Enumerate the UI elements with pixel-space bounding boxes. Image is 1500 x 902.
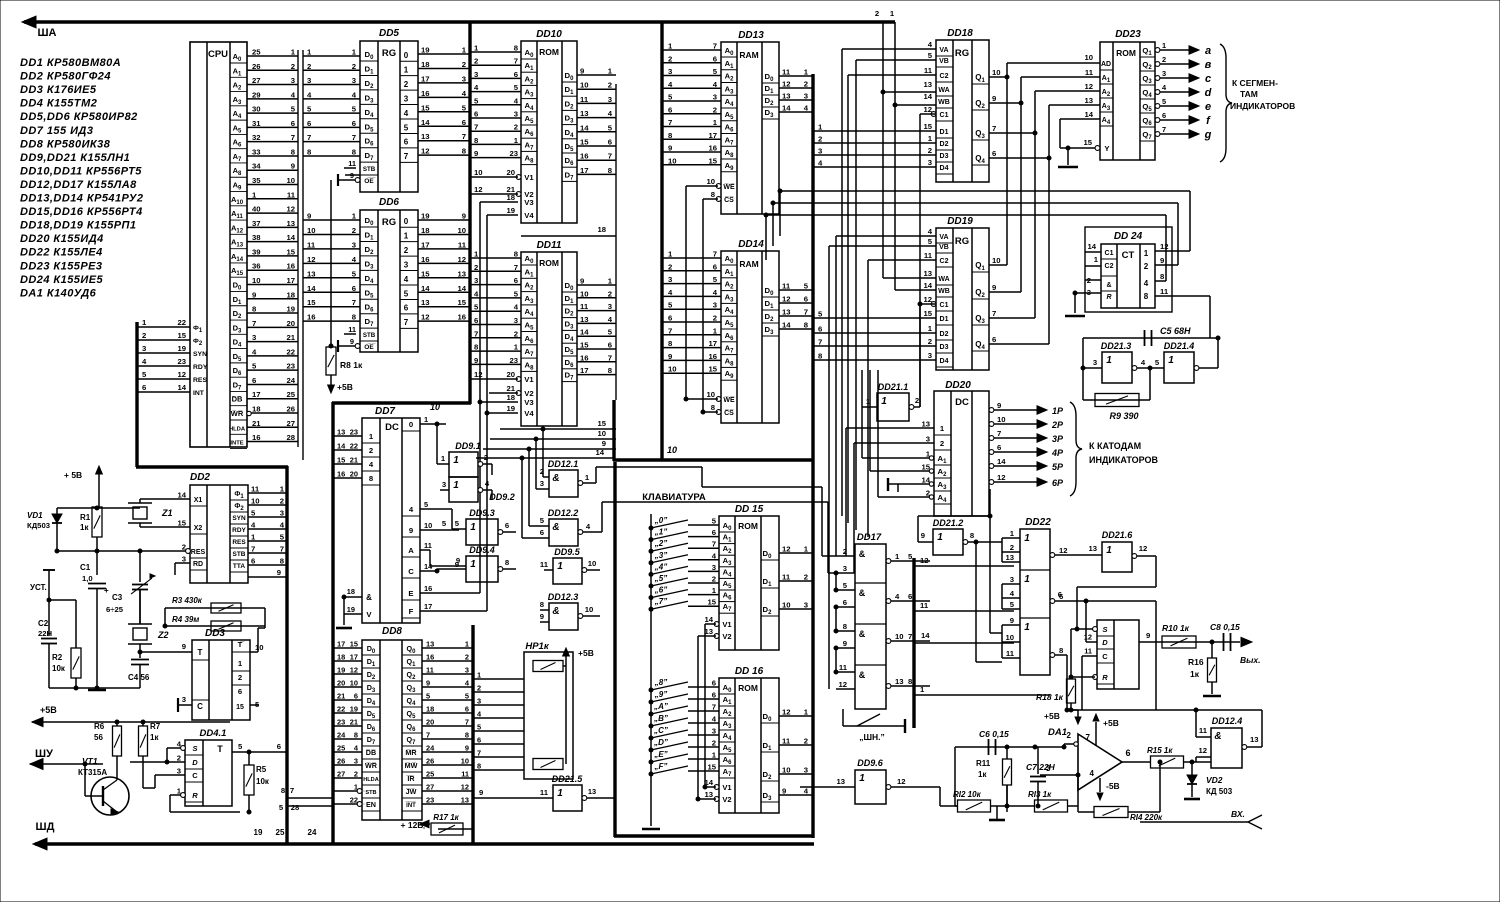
svg-text:DD21.5: DD21.5: [552, 774, 584, 784]
svg-text:15: 15: [708, 156, 717, 165]
svg-text:56: 56: [94, 733, 103, 742]
svg-text:20: 20: [426, 718, 434, 727]
svg-text:19: 19: [286, 305, 295, 314]
svg-text:6: 6: [712, 528, 716, 537]
svg-text:2: 2: [352, 62, 356, 71]
svg-text:8: 8: [711, 190, 716, 199]
svg-text:VA: VA: [939, 47, 948, 54]
svg-text:0: 0: [409, 420, 413, 429]
svg-text:DC: DC: [385, 422, 399, 433]
svg-text:16: 16: [426, 653, 434, 662]
svg-text:DD23: DD23: [1115, 29, 1141, 40]
svg-text:ROM: ROM: [1116, 48, 1136, 58]
svg-text:16: 16: [424, 584, 432, 593]
svg-text:4: 4: [251, 521, 256, 530]
svg-text:6: 6: [908, 592, 912, 601]
svg-text:23: 23: [337, 718, 345, 727]
svg-text:8: 8: [474, 136, 479, 145]
svg-text:-5В: -5В: [1106, 781, 1120, 791]
svg-text:E: E: [408, 589, 413, 598]
svg-text:11: 11: [782, 573, 791, 582]
svg-text:11: 11: [924, 251, 933, 260]
svg-text:1: 1: [470, 522, 476, 533]
svg-text:15: 15: [236, 704, 244, 711]
svg-text:1: 1: [238, 659, 243, 668]
svg-text:8: 8: [465, 731, 469, 740]
svg-text:6: 6: [462, 118, 466, 127]
svg-text:11: 11: [251, 485, 260, 494]
svg-text:+ 12В: + 12В: [401, 820, 424, 830]
svg-text:8: 8: [514, 250, 519, 259]
svg-text:13: 13: [421, 132, 430, 141]
svg-text:14: 14: [286, 233, 295, 242]
svg-text:18: 18: [421, 226, 430, 235]
svg-text:10: 10: [255, 643, 264, 652]
svg-text:5: 5: [455, 519, 460, 528]
svg-text:4Р: 4Р: [1051, 448, 1064, 458]
svg-text:5: 5: [713, 275, 718, 284]
svg-text:7: 7: [426, 731, 430, 740]
svg-text:DD8 КР580ИК38: DD8 КР580ИК38: [20, 138, 111, 150]
svg-text:6: 6: [352, 119, 356, 128]
svg-text:1: 1: [1024, 574, 1030, 585]
svg-text:VB: VB: [939, 244, 949, 251]
svg-text:DD9.2: DD9.2: [489, 492, 515, 502]
svg-text:DD7 155 ИД3: DD7 155 ИД3: [20, 125, 93, 137]
svg-text:24: 24: [337, 731, 346, 740]
svg-text:DD9.4: DD9.4: [469, 545, 495, 555]
svg-text:8: 8: [540, 600, 545, 609]
svg-text:19: 19: [347, 605, 355, 614]
svg-text:+5В: +5В: [337, 382, 353, 392]
svg-text:14: 14: [921, 631, 930, 640]
svg-text:1: 1: [668, 42, 673, 51]
svg-text:RES: RES: [191, 549, 206, 556]
svg-text:26: 26: [337, 757, 345, 766]
svg-text:8: 8: [354, 731, 358, 740]
svg-text:17: 17: [350, 653, 358, 662]
svg-text:13: 13: [1250, 735, 1259, 744]
svg-text:13: 13: [704, 790, 713, 799]
svg-text:D2: D2: [940, 141, 949, 148]
svg-text:5: 5: [928, 237, 933, 246]
svg-text:12: 12: [1160, 242, 1169, 251]
svg-text:RG: RG: [382, 48, 396, 59]
svg-text:10: 10: [668, 365, 677, 374]
svg-text:1: 1: [252, 190, 257, 199]
svg-text:7: 7: [280, 545, 284, 554]
svg-text:5: 5: [804, 282, 809, 291]
svg-text:6: 6: [514, 70, 518, 79]
svg-text:7: 7: [713, 42, 717, 51]
svg-text:10: 10: [668, 156, 677, 165]
svg-text:2: 2: [928, 146, 932, 155]
svg-text:20: 20: [337, 679, 345, 688]
svg-text:14: 14: [421, 118, 430, 127]
svg-text:2: 2: [818, 135, 822, 144]
svg-text:9: 9: [668, 144, 672, 153]
svg-text:2: 2: [352, 226, 356, 235]
svg-text:RG: RG: [955, 48, 969, 59]
svg-text:9: 9: [992, 283, 996, 292]
svg-text:37: 37: [252, 219, 261, 228]
svg-text:12: 12: [897, 777, 906, 786]
svg-text:14: 14: [580, 123, 589, 132]
svg-text:1: 1: [937, 532, 943, 543]
svg-text:11: 11: [426, 666, 434, 675]
svg-text:10: 10: [461, 757, 469, 766]
svg-text:С7 22Н: С7 22Н: [1026, 762, 1056, 772]
svg-text:ROM: ROM: [738, 683, 758, 693]
svg-text:D4: D4: [940, 165, 949, 172]
svg-text:21: 21: [506, 384, 515, 393]
svg-text:5: 5: [279, 803, 284, 812]
svg-text:20: 20: [506, 168, 515, 177]
svg-text:C̅S̅: C̅S̅: [724, 409, 734, 417]
svg-text:R18 1к: R18 1к: [1036, 692, 1064, 702]
svg-text:DD21.2: DD21.2: [933, 518, 964, 528]
svg-text:DD15,DD16 КР556РТ4: DD15,DD16 КР556РТ4: [20, 206, 143, 218]
svg-text:ИНДИКАТОРОВ: ИНДИКАТОРОВ: [1089, 455, 1159, 465]
svg-text:7: 7: [712, 703, 716, 712]
svg-text:9: 9: [291, 162, 295, 171]
svg-text:8: 8: [843, 622, 848, 631]
svg-text:10: 10: [992, 68, 1001, 77]
svg-text:12: 12: [997, 473, 1006, 482]
svg-text:3: 3: [465, 666, 469, 675]
svg-text:16: 16: [252, 433, 261, 442]
svg-text:9: 9: [921, 531, 925, 540]
svg-text:„0”: „0”: [654, 516, 667, 525]
svg-text:8: 8: [608, 366, 613, 375]
svg-text:7: 7: [608, 152, 612, 161]
svg-text:1: 1: [1094, 255, 1099, 264]
svg-text:6: 6: [251, 557, 255, 566]
svg-text:12: 12: [421, 147, 430, 156]
svg-text:10: 10: [286, 176, 295, 185]
svg-text:g: g: [1204, 129, 1212, 141]
svg-text:12: 12: [782, 545, 791, 554]
svg-text:15: 15: [177, 331, 186, 340]
svg-text:R4 39м: R4 39м: [172, 615, 199, 624]
svg-text:R2: R2: [52, 653, 63, 662]
svg-text:M̅R̅: M̅R̅: [405, 748, 417, 757]
svg-text:&: &: [552, 473, 559, 484]
svg-text:11: 11: [1084, 647, 1092, 656]
svg-text:10: 10: [474, 168, 483, 177]
svg-text:6: 6: [1162, 111, 1166, 120]
svg-text:C: C: [192, 771, 198, 780]
svg-text:e: e: [1205, 101, 1211, 113]
svg-text:КД 503: КД 503: [1206, 787, 1233, 796]
svg-text:1: 1: [453, 480, 459, 491]
svg-text:1: 1: [557, 788, 563, 799]
svg-text:DD21.4: DD21.4: [1164, 341, 1195, 351]
svg-text:7: 7: [818, 338, 822, 347]
svg-text:5: 5: [352, 105, 357, 114]
svg-text:ШД: ШД: [36, 821, 55, 833]
svg-text:+: +: [104, 586, 109, 595]
svg-text:&: &: [1106, 282, 1111, 289]
svg-text:2: 2: [369, 446, 373, 455]
svg-text:1: 1: [668, 250, 673, 259]
svg-text:27: 27: [426, 783, 434, 792]
svg-text:9: 9: [602, 439, 606, 448]
svg-text:c: c: [1205, 73, 1211, 85]
svg-text:11: 11: [782, 68, 791, 77]
svg-text:6: 6: [474, 316, 478, 325]
svg-text:6: 6: [277, 742, 281, 751]
svg-text:8: 8: [477, 762, 481, 771]
svg-text:1: 1: [1024, 533, 1030, 544]
svg-text:11: 11: [1160, 287, 1169, 296]
svg-text:5: 5: [352, 269, 357, 278]
svg-text:11: 11: [348, 325, 356, 334]
svg-text:1: 1: [369, 432, 374, 441]
svg-text:8: 8: [1160, 272, 1165, 281]
svg-text:14: 14: [1084, 110, 1093, 119]
svg-text:22: 22: [286, 347, 295, 356]
svg-text:3: 3: [1162, 69, 1166, 78]
svg-text:DD18: DD18: [947, 28, 973, 39]
svg-text:VD2: VD2: [1206, 775, 1223, 785]
svg-text:R15 1к: R15 1к: [1147, 746, 1173, 755]
svg-text:16: 16: [337, 470, 345, 479]
svg-text:22: 22: [177, 318, 186, 327]
svg-text:1: 1: [920, 685, 925, 694]
svg-text:1: 1: [928, 134, 933, 143]
svg-text:8: 8: [711, 403, 716, 412]
svg-text:DD12,DD17 К155ЛА8: DD12,DD17 К155ЛА8: [20, 179, 137, 191]
svg-text:1: 1: [1162, 41, 1166, 50]
svg-text:1: 1: [940, 424, 945, 433]
svg-text:5: 5: [442, 519, 447, 528]
svg-text:6: 6: [1125, 748, 1130, 758]
svg-text:28: 28: [286, 433, 295, 442]
svg-text:11: 11: [348, 159, 356, 168]
svg-text:4: 4: [804, 787, 809, 796]
svg-text:+5В: +5В: [1044, 711, 1060, 721]
svg-text:13: 13: [580, 315, 589, 324]
svg-text:5: 5: [477, 723, 481, 732]
svg-text:11: 11: [580, 95, 589, 104]
svg-text:4: 4: [928, 227, 933, 236]
svg-text:4: 4: [291, 90, 296, 99]
svg-text:„7”: „7”: [654, 597, 667, 606]
svg-text:6: 6: [712, 679, 716, 688]
svg-text:Y: Y: [1104, 144, 1109, 153]
svg-text:6: 6: [477, 736, 481, 745]
svg-text:C1: C1: [940, 302, 949, 309]
svg-text:7: 7: [713, 250, 717, 259]
svg-text:DD12.3: DD12.3: [548, 592, 579, 602]
svg-text:1: 1: [928, 324, 933, 333]
svg-text:DD17: DD17: [857, 532, 882, 543]
svg-text:15: 15: [923, 309, 932, 318]
svg-text:2: 2: [465, 653, 469, 662]
svg-text:23: 23: [509, 356, 518, 365]
svg-text:9: 9: [474, 149, 478, 158]
svg-text:6: 6: [354, 692, 358, 701]
svg-text:8: 8: [505, 558, 510, 567]
svg-text:33: 33: [252, 147, 261, 156]
svg-text:8: 8: [908, 677, 913, 686]
svg-text:4: 4: [1141, 358, 1146, 367]
svg-text:17: 17: [424, 602, 432, 611]
svg-text:5: 5: [1010, 600, 1015, 609]
svg-text:9: 9: [580, 67, 584, 76]
svg-text:27: 27: [337, 770, 345, 779]
svg-text:5: 5: [1162, 97, 1166, 106]
svg-text:10: 10: [588, 559, 597, 568]
svg-text:4: 4: [409, 505, 414, 514]
svg-text:1: 1: [1106, 545, 1112, 556]
svg-text:R9 390: R9 390: [1109, 411, 1138, 421]
svg-text:DA1 К140УД6: DA1 К140УД6: [20, 287, 97, 299]
svg-text:7: 7: [992, 309, 996, 318]
svg-text:V2: V2: [722, 632, 731, 641]
svg-text:16: 16: [580, 353, 589, 362]
svg-text:9: 9: [782, 787, 786, 796]
svg-text:V1: V1: [722, 620, 732, 629]
svg-text:16: 16: [307, 313, 316, 322]
svg-text:6: 6: [713, 262, 717, 271]
svg-text:DD7: DD7: [375, 406, 395, 417]
svg-text:8: 8: [668, 131, 673, 140]
svg-text:18: 18: [337, 653, 345, 662]
svg-text:4: 4: [142, 357, 147, 366]
svg-text:RD: RD: [193, 561, 203, 568]
svg-text:DD 16: DD 16: [735, 666, 764, 677]
svg-text:C: C: [408, 567, 414, 576]
svg-text:R5: R5: [256, 765, 267, 774]
svg-text:TTA: TTA: [233, 563, 245, 570]
svg-text:22: 22: [350, 442, 358, 451]
svg-text:6: 6: [668, 314, 672, 323]
svg-text:1: 1: [804, 545, 809, 554]
svg-text:2: 2: [474, 57, 478, 66]
svg-text:12: 12: [782, 80, 791, 89]
svg-text:HLDA: HLDA: [363, 777, 379, 783]
svg-text:INTE: INTE: [230, 441, 243, 447]
svg-text:13: 13: [836, 777, 845, 786]
svg-text:1: 1: [1010, 529, 1015, 538]
svg-text:6: 6: [514, 276, 518, 285]
svg-text:V4: V4: [524, 409, 534, 418]
svg-text:29: 29: [252, 90, 261, 99]
svg-text:10: 10: [307, 226, 316, 235]
svg-text:R8 1к: R8 1к: [340, 360, 363, 370]
svg-text:1: 1: [352, 48, 357, 57]
svg-text:26: 26: [286, 405, 295, 414]
svg-text:6: 6: [307, 119, 311, 128]
svg-text:R7: R7: [150, 722, 161, 731]
svg-text:26: 26: [252, 62, 261, 71]
svg-text:8: 8: [1059, 646, 1064, 655]
svg-text:23: 23: [509, 149, 518, 158]
svg-text:DD20: DD20: [945, 380, 971, 391]
svg-text:2: 2: [514, 123, 518, 132]
svg-text:RDY: RDY: [193, 364, 208, 371]
svg-text:12: 12: [350, 666, 358, 675]
svg-text:12: 12: [782, 708, 791, 717]
svg-text:10: 10: [706, 390, 715, 399]
svg-text:5: 5: [252, 362, 257, 371]
svg-text:11: 11: [782, 737, 791, 746]
svg-text:1: 1: [514, 343, 519, 352]
svg-text:13: 13: [1005, 553, 1014, 562]
svg-text:17: 17: [252, 390, 261, 399]
svg-text:R: R: [1106, 294, 1111, 301]
svg-text:6: 6: [712, 691, 716, 700]
svg-text:19: 19: [421, 212, 430, 221]
svg-text:5: 5: [404, 123, 409, 132]
svg-text:11: 11: [782, 282, 791, 291]
svg-text:8: 8: [514, 44, 519, 53]
svg-text:4: 4: [404, 275, 409, 284]
svg-text:в: в: [1205, 59, 1212, 71]
svg-text:11: 11: [924, 66, 933, 75]
svg-text:10: 10: [667, 445, 677, 455]
svg-text:18: 18: [286, 290, 295, 299]
svg-text:1: 1: [608, 277, 613, 286]
svg-text:S: S: [1102, 625, 1107, 634]
svg-text:18: 18: [421, 60, 430, 69]
svg-text:14: 14: [782, 321, 791, 330]
svg-text:9: 9: [409, 526, 413, 535]
svg-text:7: 7: [307, 133, 311, 142]
svg-text:„В”: „В”: [653, 714, 668, 723]
svg-text:V2: V2: [722, 795, 731, 804]
svg-text:DD6: DD6: [379, 197, 399, 208]
svg-text:HLDA: HLDA: [229, 426, 246, 432]
svg-text:4: 4: [713, 288, 718, 297]
svg-text:4: 4: [712, 551, 717, 560]
svg-text:1: 1: [470, 559, 476, 570]
svg-text:28: 28: [291, 803, 300, 812]
svg-text:8: 8: [818, 352, 823, 361]
svg-text:24: 24: [426, 744, 435, 753]
svg-text:DD10: DD10: [536, 29, 562, 40]
svg-text:21: 21: [350, 456, 358, 465]
svg-text:W̅E̅: W̅E̅: [723, 183, 735, 191]
svg-text:5: 5: [280, 533, 285, 542]
svg-text:15: 15: [597, 419, 606, 428]
svg-text:5: 5: [291, 105, 296, 114]
svg-text:6: 6: [1058, 590, 1062, 599]
svg-text:CT: CT: [1122, 250, 1135, 261]
svg-text:2: 2: [484, 453, 488, 462]
svg-text:2: 2: [608, 289, 612, 298]
svg-text:1: 1: [713, 118, 718, 127]
svg-text:12: 12: [1198, 746, 1207, 755]
svg-text:C1: C1: [80, 563, 91, 572]
svg-text:4: 4: [818, 159, 823, 168]
svg-text:15: 15: [708, 365, 717, 374]
svg-text:T: T: [198, 648, 203, 657]
svg-text:10: 10: [252, 276, 261, 285]
svg-text:4: 4: [514, 303, 519, 312]
svg-text:38: 38: [252, 233, 261, 242]
svg-text:2: 2: [804, 573, 808, 582]
svg-text:2Р: 2Р: [1051, 420, 1064, 430]
svg-text:4: 4: [804, 104, 809, 113]
svg-text:RI2 10к: RI2 10к: [953, 790, 982, 799]
svg-text:7: 7: [668, 326, 672, 335]
svg-text:2: 2: [713, 105, 717, 114]
svg-text:12: 12: [307, 255, 316, 264]
svg-text:CPU: CPU: [208, 49, 228, 60]
